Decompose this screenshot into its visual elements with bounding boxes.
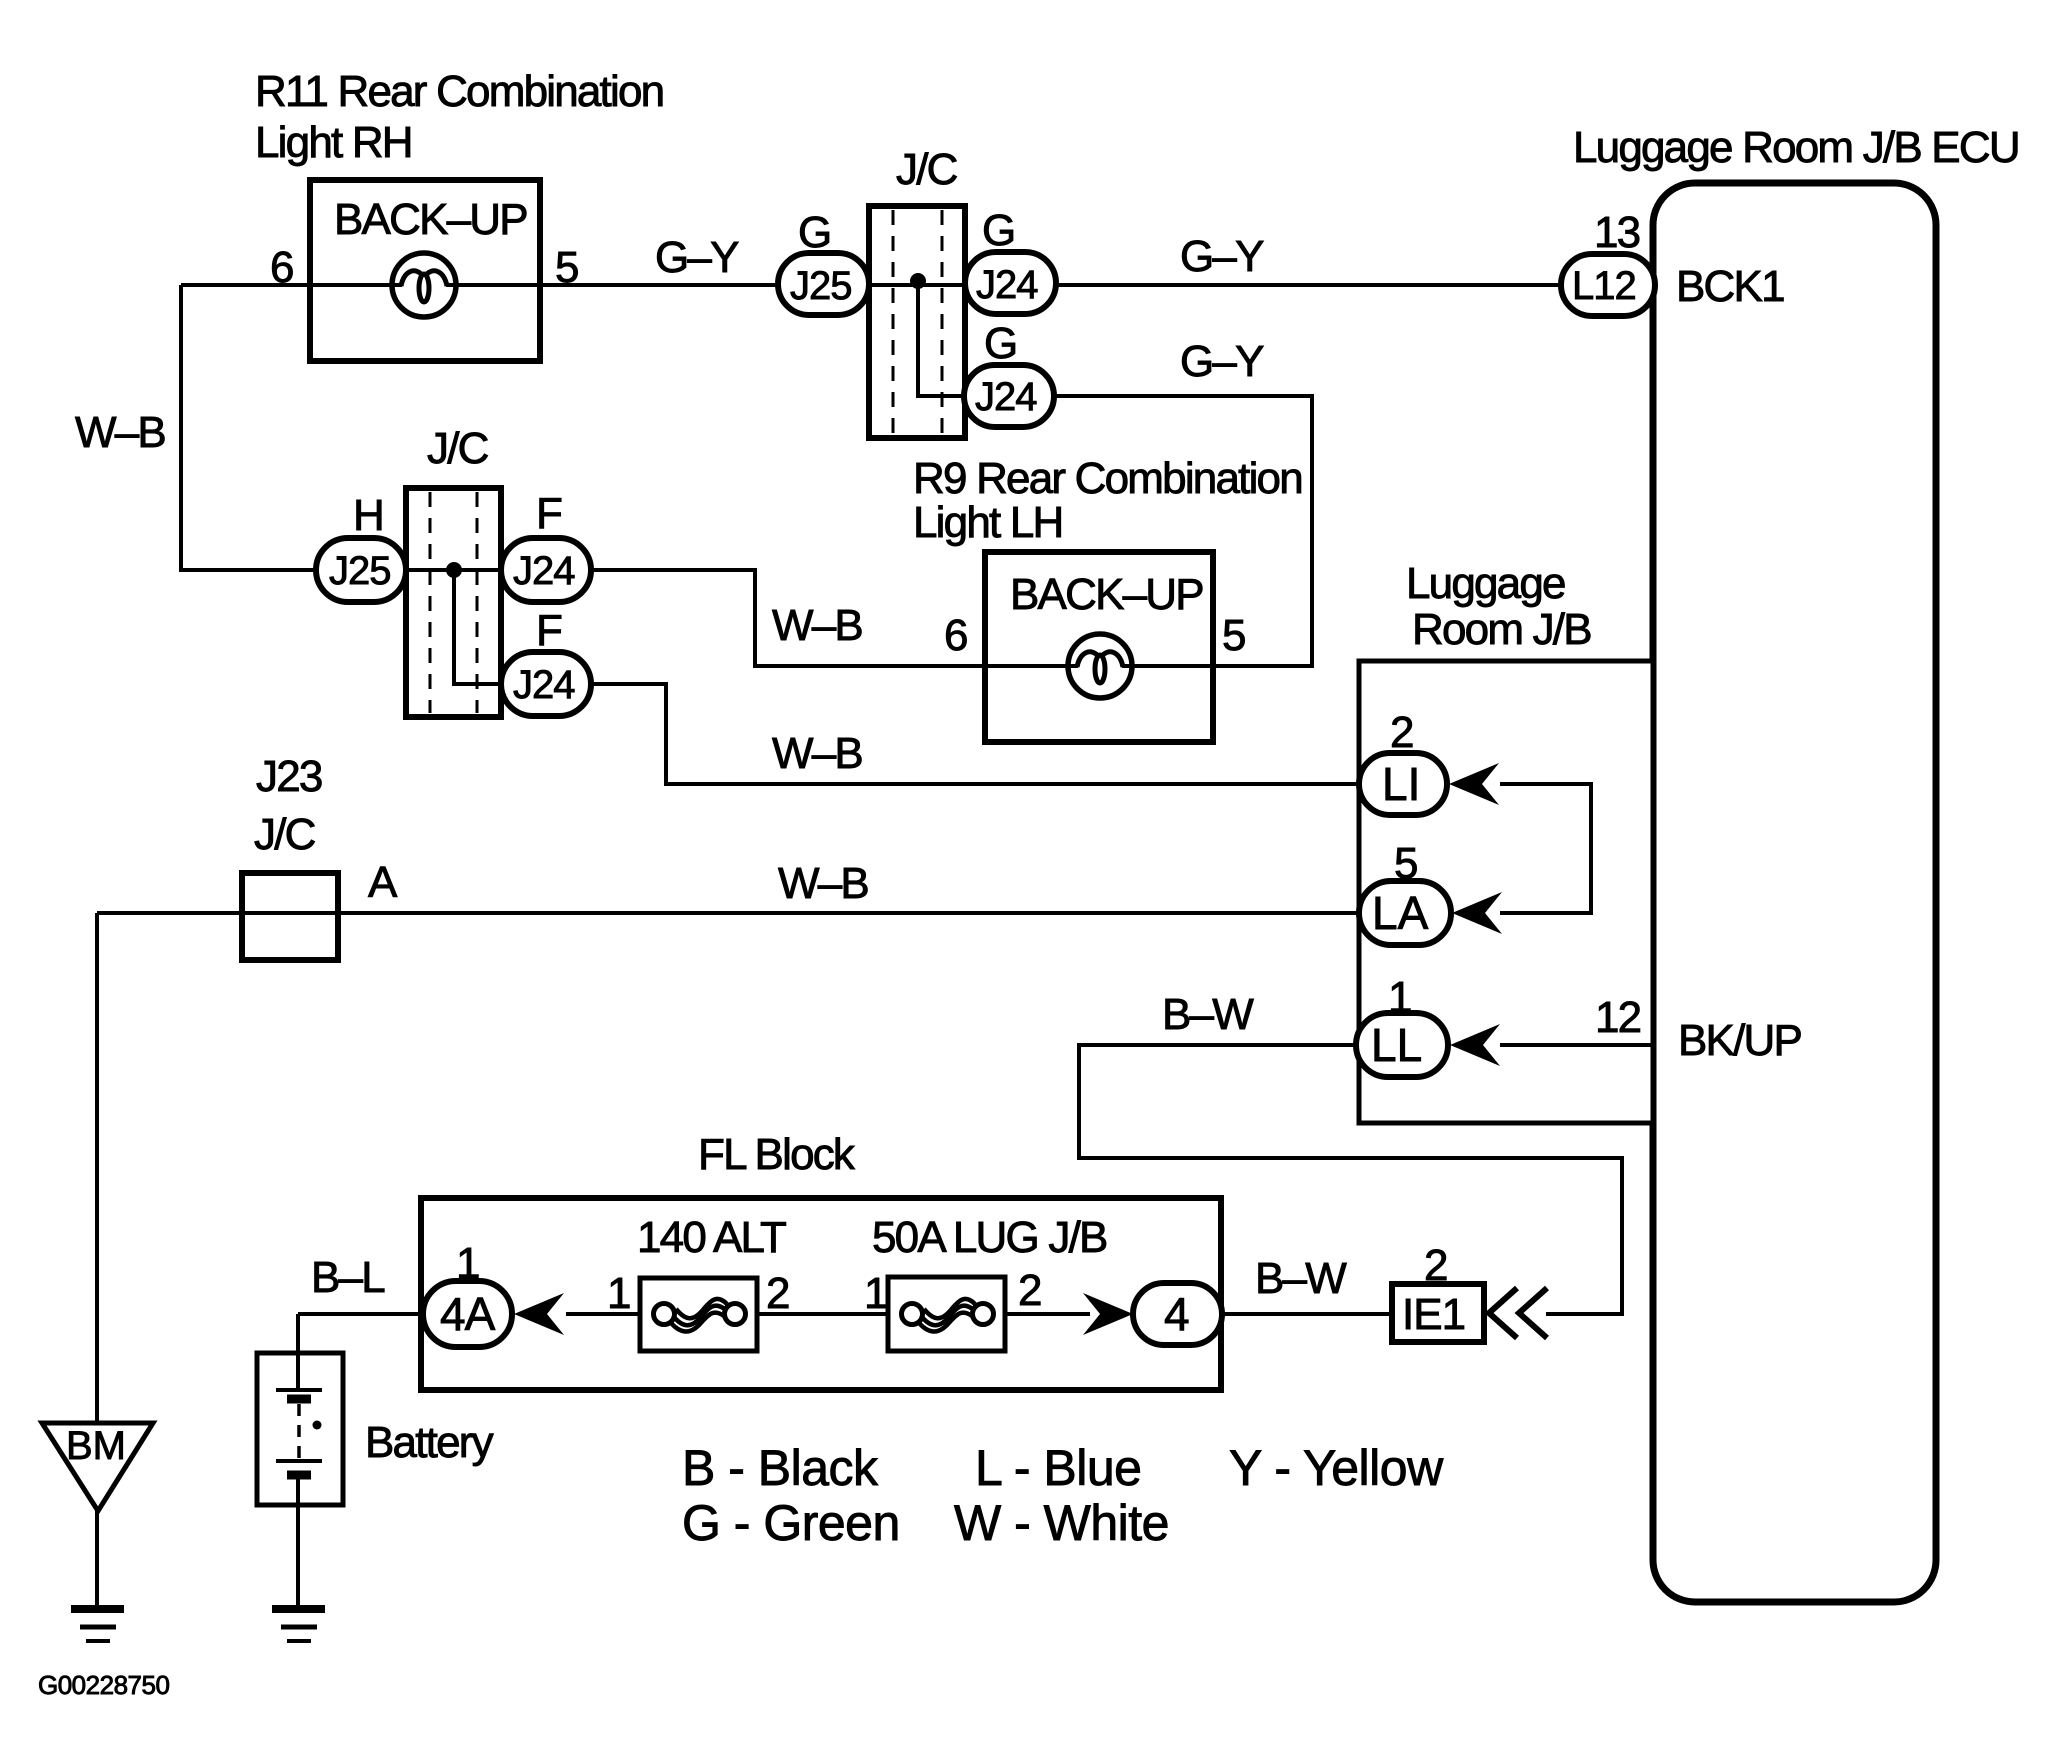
svg-text:B - Black: B - Black bbox=[682, 1440, 879, 1496]
svg-text:Battery: Battery bbox=[365, 1418, 494, 1467]
connector oval 4A bbox=[423, 1281, 512, 1347]
svg-text:J25: J25 bbox=[790, 264, 852, 308]
wire J24 F2 to LI W-B bbox=[591, 684, 1359, 784]
J/C lower dashed lines bbox=[429, 492, 432, 713]
J/C lower internal link bbox=[454, 570, 501, 684]
arrow into 4 bbox=[1083, 1293, 1133, 1335]
svg-text:BACK–UP: BACK–UP bbox=[334, 195, 527, 244]
connector oval J24 second bbox=[964, 365, 1054, 427]
connector oval J25 H bbox=[316, 538, 406, 602]
fuse 50A LUG J/B bbox=[888, 1277, 1005, 1351]
svg-text:1: 1 bbox=[607, 1269, 630, 1318]
svg-text:13: 13 bbox=[1594, 208, 1640, 257]
svg-text:12: 12 bbox=[1595, 993, 1641, 1042]
wire LL arrow to ECU BK/UP bbox=[1500, 1043, 1653, 1047]
connector oval J24 top bbox=[965, 252, 1056, 314]
svg-text:J23: J23 bbox=[256, 752, 322, 801]
J/C top dashed lines bbox=[892, 210, 895, 434]
wire LL to IE1 B-W bbox=[1079, 1045, 1622, 1314]
connector oval J24 F2 bbox=[501, 652, 591, 716]
arrow into LA bbox=[1452, 892, 1502, 934]
R9 rear combination light box bbox=[985, 552, 1213, 742]
connector oval LA bbox=[1359, 881, 1451, 945]
wire W-B left vertical bbox=[181, 285, 316, 570]
svg-text:J24: J24 bbox=[513, 549, 575, 593]
arrow into LI bbox=[1449, 763, 1499, 805]
svg-text:J25: J25 bbox=[329, 549, 391, 593]
svg-text:50A LUG J/B: 50A LUG J/B bbox=[872, 1213, 1107, 1262]
svg-text:5: 5 bbox=[1394, 839, 1417, 888]
FL Block box bbox=[421, 1198, 1221, 1390]
svg-text:R11 Rear Combination: R11 Rear Combination bbox=[255, 67, 663, 116]
svg-text:G00228750: G00228750 bbox=[38, 1670, 169, 1700]
svg-text:Luggage Room J/B ECU: Luggage Room J/B ECU bbox=[1573, 123, 2019, 172]
wire LI arrow loop to LA arrow bbox=[1500, 784, 1591, 913]
svg-text:W–B: W–B bbox=[772, 601, 862, 650]
svg-text:IE1: IE1 bbox=[1402, 1290, 1465, 1339]
ground below BM bbox=[71, 1609, 124, 1641]
svg-text:1: 1 bbox=[1388, 973, 1411, 1022]
battery internal plates bbox=[276, 1390, 322, 1475]
wire lower J/C rail bbox=[316, 568, 591, 572]
svg-text:G: G bbox=[982, 206, 1014, 255]
connector IE1 box bbox=[1392, 1284, 1484, 1342]
wire J23 rail W-B to LA bbox=[97, 911, 1359, 915]
svg-text:2: 2 bbox=[766, 1269, 789, 1318]
wire top J/C rail bbox=[778, 283, 1056, 287]
J/C lower junction dot bbox=[446, 562, 462, 578]
Luggage Room J/B box bbox=[1359, 661, 1653, 1123]
ground below battery bbox=[272, 1609, 325, 1641]
J/C junction connector box lower bbox=[406, 488, 501, 717]
svg-text:5: 5 bbox=[1222, 611, 1245, 660]
svg-text:B–W: B–W bbox=[1255, 1254, 1347, 1303]
wire fuse1 to fuse2 bbox=[736, 1312, 912, 1316]
R11 rear combination light box bbox=[310, 180, 540, 361]
wire battery to 4A B-L bbox=[298, 1312, 423, 1316]
svg-text:FL Block: FL Block bbox=[698, 1130, 856, 1179]
wire J23 down to BM ground bbox=[95, 913, 99, 1423]
connector oval J25 G bbox=[778, 253, 869, 315]
wire R9 pin5 up to J24 G-Y bbox=[1054, 396, 1312, 666]
wire through R9 lamp bbox=[985, 664, 1213, 668]
connector oval L12 bbox=[1561, 254, 1655, 316]
svg-text:G - Green: G - Green bbox=[682, 1495, 900, 1551]
connector oval 4 bbox=[1133, 1283, 1222, 1345]
lamp R9 BACK-UP bulb bbox=[1068, 634, 1132, 698]
svg-text:A: A bbox=[368, 858, 398, 907]
svg-text:J24: J24 bbox=[976, 263, 1038, 307]
svg-text:1: 1 bbox=[456, 1239, 479, 1288]
wire battery top stub bbox=[296, 1314, 300, 1392]
connector oval LI bbox=[1359, 753, 1447, 815]
connector oval LL bbox=[1356, 1013, 1448, 1077]
svg-text:2: 2 bbox=[1018, 1266, 1041, 1315]
svg-text:4: 4 bbox=[1164, 1288, 1190, 1340]
svg-text:L12: L12 bbox=[1572, 264, 1636, 308]
lamp R11 BACK-UP bulb bbox=[392, 253, 456, 317]
wire J24 to L12 G-Y bbox=[1056, 283, 1561, 287]
svg-text:W–B: W–B bbox=[778, 859, 868, 908]
svg-text:LL: LL bbox=[1371, 1019, 1422, 1071]
wire battery to ground bbox=[296, 1474, 300, 1607]
svg-text:L - Blue: L - Blue bbox=[975, 1440, 1141, 1496]
svg-text:BM: BM bbox=[66, 1424, 126, 1468]
svg-text:4A: 4A bbox=[440, 1288, 496, 1340]
wire R11 rail G-Y bbox=[181, 283, 778, 287]
svg-text:LA: LA bbox=[1372, 887, 1429, 939]
svg-text:F: F bbox=[536, 606, 562, 655]
svg-text:Room J/B: Room J/B bbox=[1412, 605, 1591, 654]
svg-text:J/C: J/C bbox=[896, 145, 958, 194]
connector oval J24 F1 bbox=[501, 538, 591, 602]
battery box bbox=[257, 1353, 343, 1505]
wire 4 to IE1 B-W bbox=[1222, 1312, 1392, 1316]
svg-text:6: 6 bbox=[944, 611, 967, 660]
svg-text:1: 1 bbox=[864, 1269, 887, 1318]
arrow into 4A bbox=[514, 1293, 564, 1335]
svg-text:H: H bbox=[353, 491, 383, 540]
svg-text:W–B: W–B bbox=[75, 408, 165, 457]
svg-text:BK/UP: BK/UP bbox=[1678, 1016, 1801, 1065]
svg-text:G–Y: G–Y bbox=[1180, 232, 1264, 281]
svg-text:Light LH: Light LH bbox=[913, 498, 1062, 547]
J/C junction connector box top bbox=[869, 206, 965, 438]
svg-text:Y - Yellow: Y - Yellow bbox=[1229, 1440, 1444, 1496]
svg-text:Light RH: Light RH bbox=[255, 118, 412, 167]
ECU Luggage Room J/B ECU box bbox=[1653, 183, 1936, 1602]
svg-text:G–Y: G–Y bbox=[1180, 337, 1264, 386]
svg-text:J/C: J/C bbox=[427, 424, 489, 473]
wire BM apex to ground bbox=[95, 1511, 99, 1607]
chevrons at IE1 bbox=[1489, 1288, 1517, 1338]
svg-text:G: G bbox=[798, 208, 830, 257]
svg-text:W - White: W - White bbox=[954, 1495, 1169, 1551]
svg-text:2: 2 bbox=[1390, 708, 1413, 757]
svg-text:J/C: J/C bbox=[254, 810, 316, 859]
fuse 140 ALT bbox=[640, 1278, 757, 1351]
svg-text:R9 Rear Combination: R9 Rear Combination bbox=[913, 454, 1302, 503]
svg-text:F: F bbox=[536, 489, 562, 538]
J/C top junction dot bbox=[910, 273, 926, 289]
svg-text:LI: LI bbox=[1382, 758, 1420, 810]
svg-text:5: 5 bbox=[555, 243, 578, 292]
svg-text:G–Y: G–Y bbox=[655, 233, 739, 282]
wire J24 F to R9 pin6 bbox=[591, 570, 985, 666]
BM ground triangle bbox=[42, 1423, 153, 1511]
J23 junction connector square bbox=[242, 873, 338, 960]
svg-text:140 ALT: 140 ALT bbox=[637, 1213, 786, 1262]
svg-text:J24: J24 bbox=[513, 663, 575, 707]
svg-text:BCK1: BCK1 bbox=[1676, 262, 1784, 311]
svg-text:B–L: B–L bbox=[311, 1253, 385, 1302]
wire FL block internal 4A to fuse1 bbox=[566, 1312, 666, 1316]
svg-text:J24: J24 bbox=[975, 375, 1037, 419]
J/C top internal link bbox=[918, 281, 965, 396]
wire fuse2 to arrow 4 bbox=[982, 1312, 1090, 1316]
svg-text:W–B: W–B bbox=[772, 729, 862, 778]
svg-text:B–W: B–W bbox=[1162, 990, 1254, 1039]
svg-text:G: G bbox=[984, 319, 1016, 368]
arrow into LL bbox=[1450, 1024, 1500, 1066]
svg-text:Luggage: Luggage bbox=[1406, 559, 1565, 608]
svg-text:BACK–UP: BACK–UP bbox=[1010, 570, 1203, 619]
svg-text:6: 6 bbox=[270, 243, 293, 292]
svg-text:2: 2 bbox=[1424, 1241, 1447, 1290]
